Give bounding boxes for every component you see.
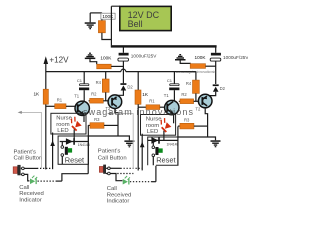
resistor R1 (channel1) xyxy=(46,97,76,108)
svg-text:Call Button: Call Button xyxy=(98,155,127,161)
capacitor C1 (channel2) xyxy=(167,72,180,101)
reset box (channel1) xyxy=(58,136,88,164)
wire T2-2 emitter down xyxy=(205,108,207,137)
svg-text:1000uF/25V: 1000uF/25V xyxy=(223,55,248,60)
resistor R4 (channel2) xyxy=(186,72,199,102)
svg-text:Received: Received xyxy=(19,191,44,197)
diode D2 (channel2) xyxy=(205,84,225,95)
wire 100K bottom lead xyxy=(102,33,112,40)
svg-text:LED: LED xyxy=(57,128,68,134)
watermark xyxy=(83,70,216,117)
push button Patient's Call (channel1) xyxy=(13,165,52,181)
svg-text:R2: R2 xyxy=(181,92,187,97)
resistor R2 (channel1) xyxy=(89,91,109,103)
svg-text:R4: R4 xyxy=(186,81,192,86)
ground (channel1 mid) xyxy=(85,53,97,65)
resistor R3 (channel1) xyxy=(88,117,118,128)
transistor T2 (channel2) xyxy=(195,94,212,111)
resistor 100K (channel2 mid) xyxy=(190,55,206,68)
diode 1N4148 (channel2) xyxy=(148,137,179,147)
svg-text:Indicator: Indicator xyxy=(19,198,42,204)
wire arrow feed (channel2) xyxy=(140,134,145,171)
resistor 1K (channel1) xyxy=(33,89,48,104)
svg-text:R4: R4 xyxy=(96,80,102,85)
LED nurse room (channel1, red) xyxy=(67,116,82,131)
label patient call button (channel1) xyxy=(14,150,43,162)
wire remote path (channel1, gray) xyxy=(18,111,42,168)
wire +12V branch bus xyxy=(46,69,196,71)
svg-text:R3: R3 xyxy=(94,117,100,122)
svg-text:D2: D2 xyxy=(127,85,133,90)
wire LED1g dotted link xyxy=(38,180,62,182)
svg-text:C1: C1 xyxy=(167,78,173,83)
ground (channel2 lower) xyxy=(211,140,221,147)
LED call received indicator (channel1, green) xyxy=(30,176,37,185)
svg-text:wwwswagataminnovationsin: wwwswagataminnovationsin xyxy=(176,70,216,74)
svg-text:Indicator: Indicator xyxy=(107,199,130,203)
wire node x178 (channel2) xyxy=(177,126,179,165)
transistor T2 (channel1) xyxy=(105,95,121,111)
resistor 1K (channel2) xyxy=(135,72,149,171)
wire cap1 lower stem xyxy=(122,61,124,83)
svg-text:Nurse: Nurse xyxy=(56,115,72,121)
svg-text:1K: 1K xyxy=(33,91,40,96)
ground (channel2 mid) xyxy=(175,54,190,64)
resistor 100K (channel1 mid) xyxy=(97,56,113,69)
capacitor 1000uF/25V (left) xyxy=(118,48,157,62)
wire LED return (channel2) xyxy=(155,166,157,182)
svg-text:Patient’s: Patient’s xyxy=(14,150,37,156)
wire reset box1 to ground xyxy=(88,136,129,140)
svg-text:R3: R3 xyxy=(184,118,190,123)
reset box (channel2) xyxy=(148,137,178,165)
svg-text:Bell: Bell xyxy=(128,19,143,29)
+12V supply arrow xyxy=(44,55,70,169)
wire top-left node xyxy=(90,12,102,14)
LED nurse room (channel2, red) xyxy=(157,117,172,132)
svg-text:Call Button: Call Button xyxy=(14,156,43,162)
svg-text:1000uF/25V: 1000uF/25V xyxy=(131,54,157,59)
transistor T1 (channel2) xyxy=(164,93,179,115)
nurse room box (channel2) xyxy=(141,115,176,136)
resistor R3 (channel2) xyxy=(178,118,208,129)
svg-text:T1: T1 xyxy=(74,94,80,99)
capacitor 1000uF/25V (right) xyxy=(210,48,249,62)
wire cap2 lower stem xyxy=(215,61,217,84)
svg-text:Call: Call xyxy=(19,185,29,191)
svg-text:D2: D2 xyxy=(220,86,226,91)
wire remote path (channel2, gray) xyxy=(107,112,133,169)
label patient call button (channel2) xyxy=(98,149,127,162)
wire T1-2 emitter xyxy=(173,115,175,124)
svg-text:Patient’s: Patient’s xyxy=(98,149,121,155)
label call received indicator (channel2) xyxy=(107,186,132,205)
ground (channel1 lower) xyxy=(124,140,134,147)
ground (top-left, near 100K) xyxy=(85,13,96,29)
svg-text:100K: 100K xyxy=(100,56,112,61)
svg-text:Received: Received xyxy=(107,192,132,198)
resistor 100K (top, bell shunt) xyxy=(98,13,115,33)
wire reset box2 to ground xyxy=(178,137,216,140)
svg-text:swagatam innovations: swagatam innovations xyxy=(83,107,194,117)
wire LED return (channel1) xyxy=(62,164,88,181)
label call received indicator (channel1) xyxy=(19,185,44,204)
transistor T1 (channel1) xyxy=(74,94,89,116)
push button Reset (channel1) xyxy=(61,142,84,165)
resistor R4 (channel1) xyxy=(96,72,109,101)
svg-text:1K: 1K xyxy=(142,92,149,97)
wire T1-1 emitter xyxy=(83,115,85,122)
diode 1N4148 (channel1) xyxy=(60,138,90,147)
svg-text:LED: LED xyxy=(147,129,158,135)
svg-text:T1: T1 xyxy=(164,93,170,98)
wire T2-1 emitter down xyxy=(115,109,118,137)
wire arrow feed (channel1) xyxy=(50,133,55,170)
svg-text:Call: Call xyxy=(107,186,117,192)
svg-text:Nurse: Nurse xyxy=(146,117,162,123)
svg-text:100K: 100K xyxy=(195,55,207,60)
push button Patient's Call (channel2) xyxy=(99,165,142,181)
wire node x88 (channel1) xyxy=(87,125,89,164)
svg-text:+12V: +12V xyxy=(49,55,69,64)
wire bell riser xyxy=(111,6,119,45)
svg-text:R1: R1 xyxy=(57,97,63,102)
svg-text:R2: R2 xyxy=(91,91,97,96)
svg-text:100K: 100K xyxy=(102,14,114,19)
LED call received indicator (channel2, green) xyxy=(123,176,130,185)
wire 100K-1 right lead xyxy=(111,65,123,67)
svg-text:Reset: Reset xyxy=(65,155,84,164)
diode D2 (channel1) xyxy=(115,83,134,95)
resistor R2 (channel2) xyxy=(179,92,199,104)
wire LED2 cathode down xyxy=(163,131,165,141)
wire positive rail (top) xyxy=(111,45,217,47)
nurse room box (channel1) xyxy=(51,113,86,134)
wire 100K-2 right lead xyxy=(206,65,216,67)
push button Reset (channel2) xyxy=(152,140,176,165)
svg-text:C1: C1 xyxy=(77,78,83,83)
svg-text:R1: R1 xyxy=(149,98,155,103)
capacitor C1 (channel1) xyxy=(77,72,89,102)
resistor R1 (channel2) xyxy=(138,98,165,109)
12V DC Bell box xyxy=(120,6,171,30)
svg-text:1N4148: 1N4148 xyxy=(167,143,179,147)
svg-text:T2: T2 xyxy=(195,107,201,112)
svg-text:Reset: Reset xyxy=(156,155,175,164)
wire LED1 cathode down xyxy=(73,129,75,138)
wire LED2g dotted link xyxy=(130,181,156,183)
